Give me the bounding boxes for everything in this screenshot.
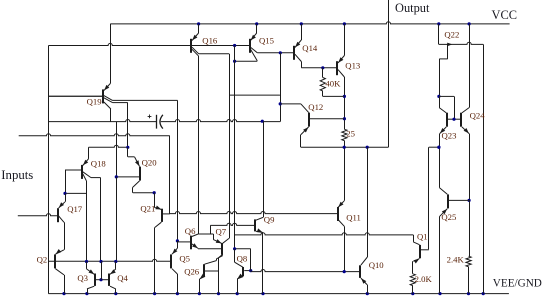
svg-text:Q22: Q22 [444,29,459,39]
svg-text:Q9: Q9 [264,215,275,225]
svg-text:Q1: Q1 [417,232,428,242]
svg-text:Q19: Q19 [87,97,102,107]
svg-text:Q26: Q26 [184,267,200,277]
svg-text:40K: 40K [325,79,341,89]
svg-text:Q21: Q21 [140,204,155,214]
svg-text:Output: Output [395,1,430,15]
svg-text:VCC: VCC [492,8,517,22]
svg-text:Q18: Q18 [91,158,107,168]
svg-text:VEE/GND: VEE/GND [493,278,542,290]
svg-text:Q16: Q16 [202,35,218,45]
svg-text:Q3: Q3 [77,273,88,283]
svg-text:2.0K: 2.0K [415,274,433,284]
svg-text:Q10: Q10 [369,260,385,270]
svg-text:Q23: Q23 [442,130,457,140]
svg-text:Q5: Q5 [179,254,190,264]
svg-text:25: 25 [346,129,355,139]
svg-text:2.4K: 2.4K [447,254,465,264]
svg-text:Q17: Q17 [67,204,83,214]
svg-text:Q12: Q12 [308,102,323,112]
svg-text:Q2: Q2 [37,254,48,264]
svg-text:Q11: Q11 [346,212,361,222]
svg-text:Q13: Q13 [345,60,360,70]
svg-text:Q24: Q24 [470,110,486,120]
svg-text:Q7: Q7 [216,227,227,237]
svg-text:Q8: Q8 [237,254,248,264]
svg-text:Q4: Q4 [117,273,128,283]
svg-text:Inputs: Inputs [1,168,33,182]
svg-text:Q6: Q6 [185,226,196,236]
svg-text:Q20: Q20 [142,157,158,167]
svg-text:Q14: Q14 [302,43,318,53]
svg-text:Q15: Q15 [259,35,274,45]
svg-text:Q25: Q25 [441,212,456,222]
